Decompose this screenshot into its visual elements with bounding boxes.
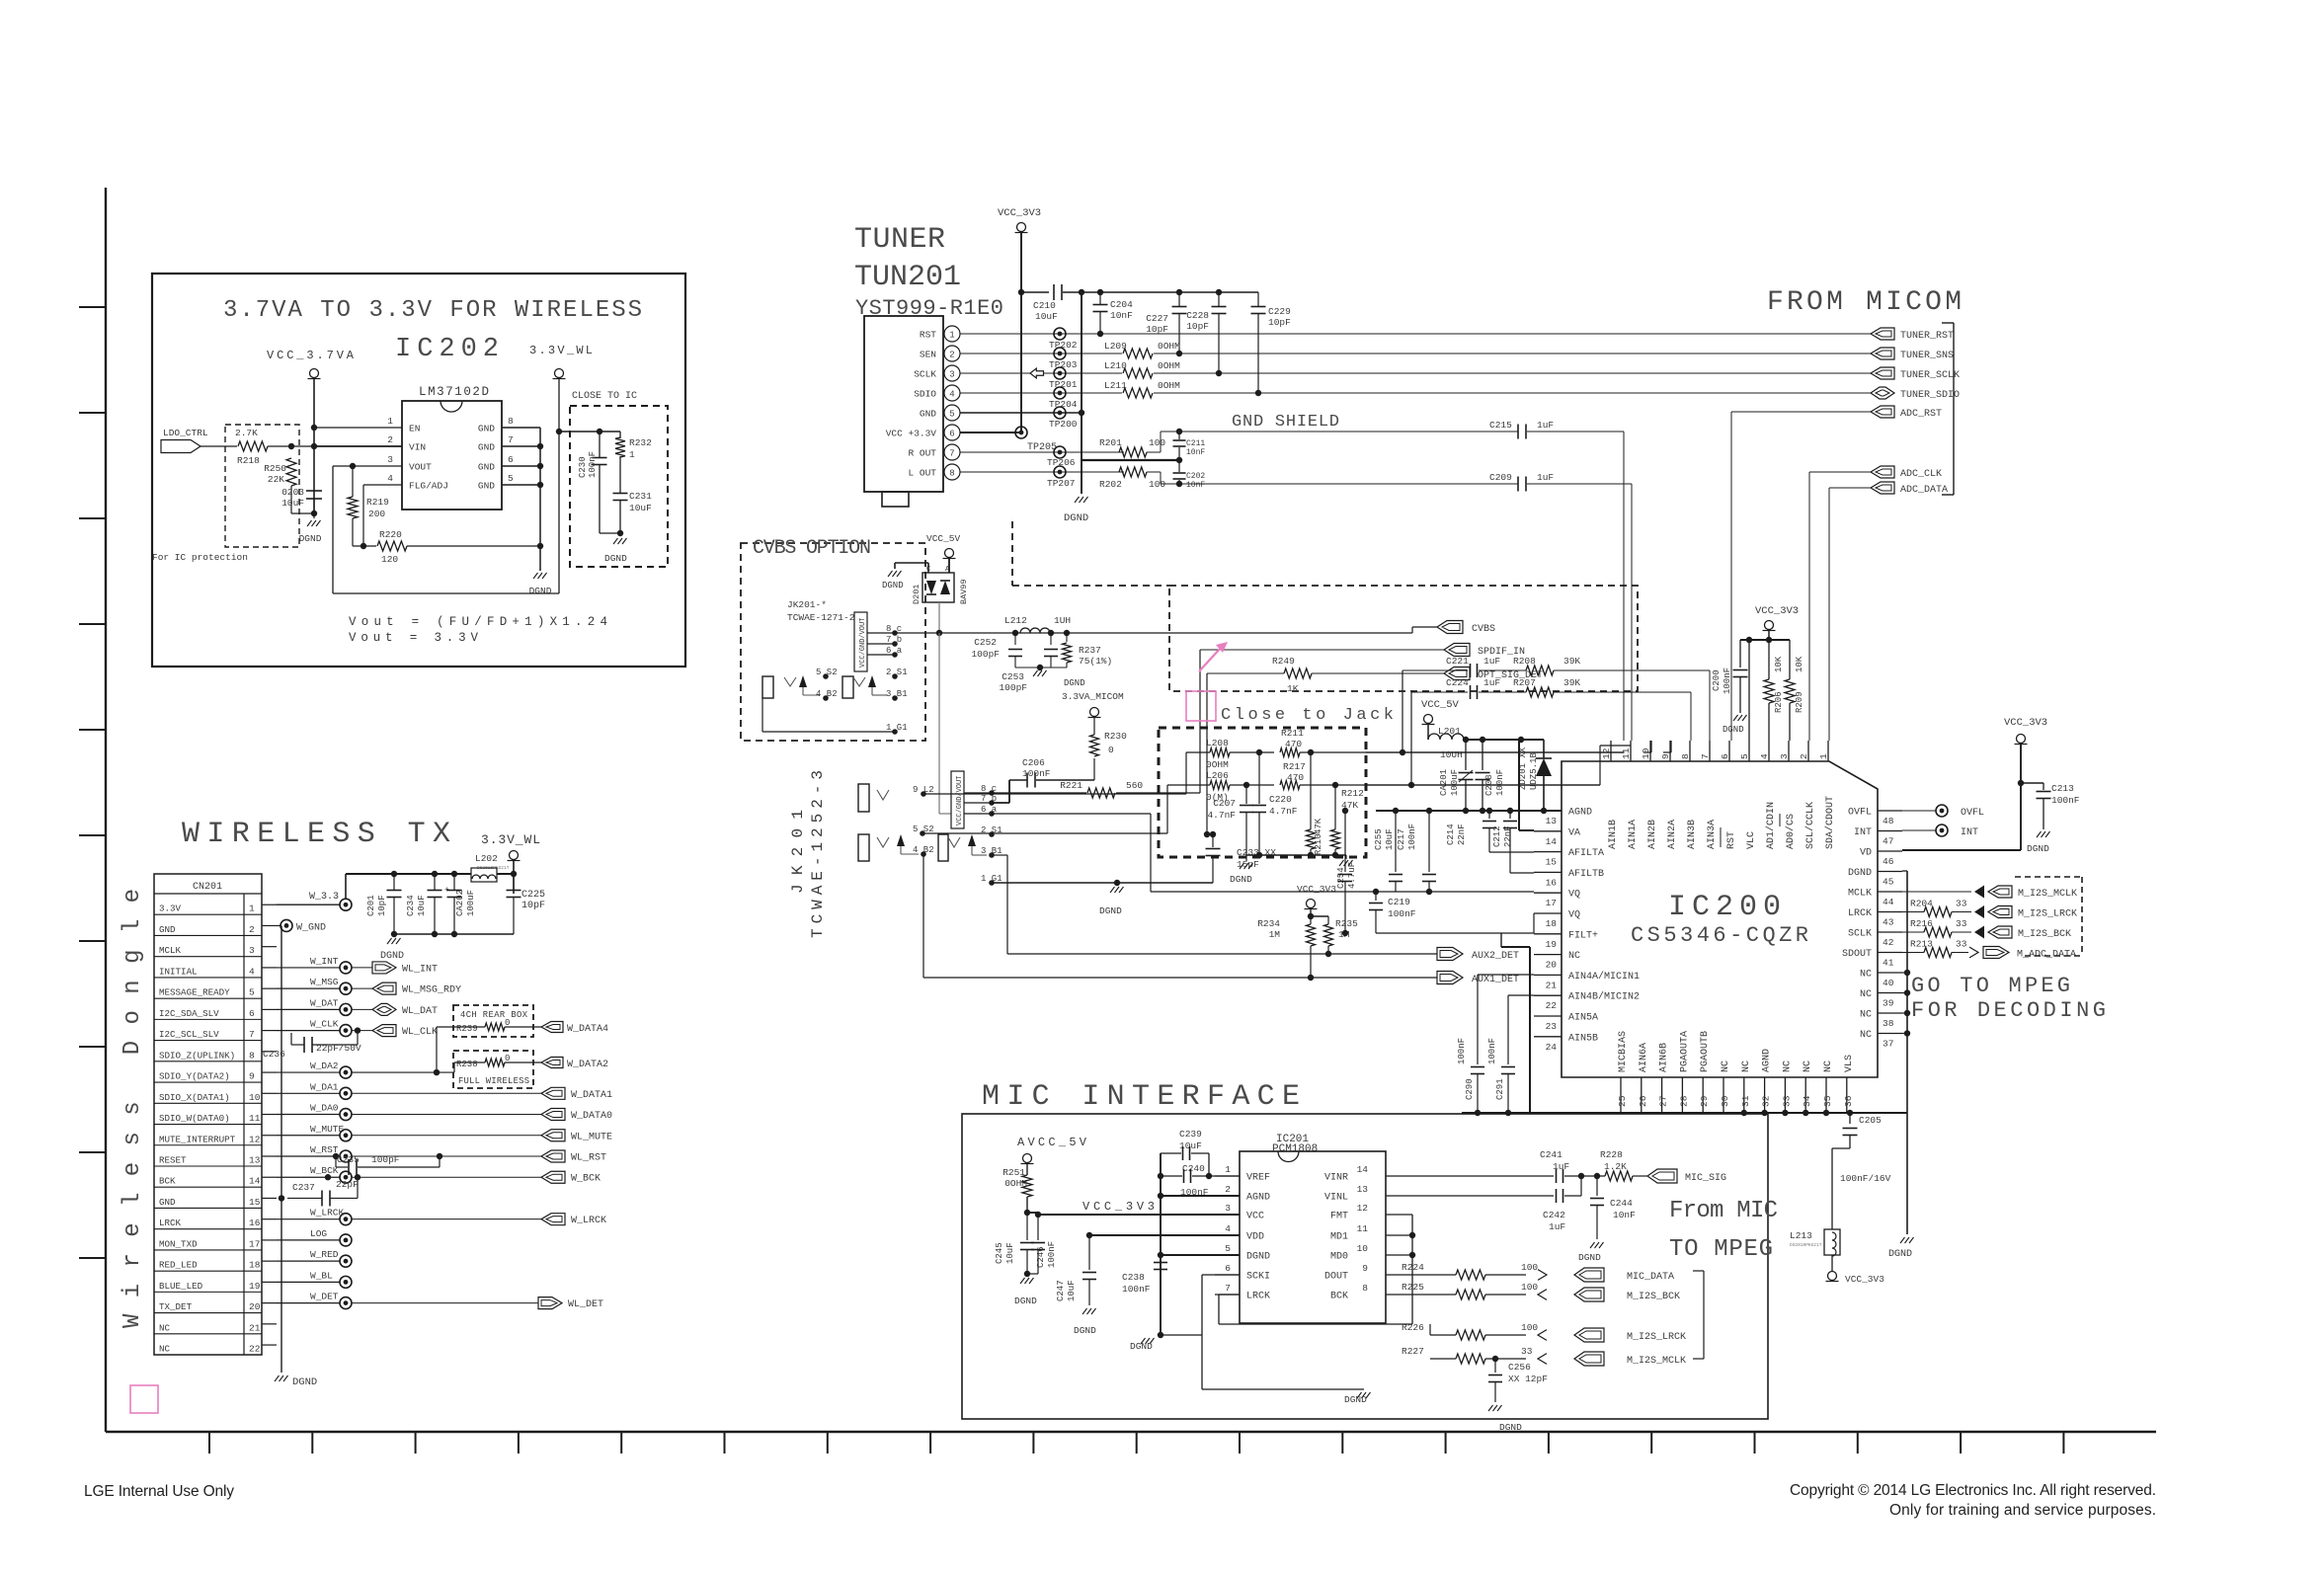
IC200 pin 1 SDA/CDOUT (1827, 741, 1829, 761)
svg-text:100nF: 100nF (2051, 795, 2080, 806)
frame left border line (105, 188, 107, 1432)
wire SEN + L209 (960, 353, 1122, 354)
wire VQ pin18 (1376, 932, 1534, 934)
svg-text:GND: GND (478, 462, 495, 473)
net tag W_DATA2 (541, 1058, 563, 1068)
svg-text:R216: R216 (1910, 918, 1933, 929)
net tag TUNER_SNS (1871, 348, 1894, 359)
svg-text:12: 12 (1601, 747, 1612, 759)
svg-text:MIC_DATA: MIC_DATA (1627, 1272, 1674, 1283)
svg-text:LRCK: LRCK (1246, 1292, 1270, 1302)
IC200 pin 33 NC (1784, 1077, 1786, 1113)
svg-text:100: 100 (1149, 437, 1165, 448)
svg-text:R218: R218 (237, 455, 260, 466)
svg-text:10uF: 10uF (1067, 1280, 1077, 1301)
svg-text:43: 43 (1883, 917, 1894, 928)
svg-text:33: 33 (1956, 918, 1967, 929)
svg-text:22pF: 22pF (336, 1179, 359, 1190)
svg-text:33: 33 (1956, 899, 1967, 909)
shield bottom line with C209 1uF (1161, 483, 1518, 485)
svg-text:1: 1 (629, 449, 635, 460)
svg-text:BLUE_LED: BLUE_LED (159, 1281, 203, 1292)
FILT+ thick drop (1529, 947, 1531, 1113)
svg-text:NC: NC (1860, 970, 1872, 981)
svg-text:C224: C224 (1446, 677, 1469, 688)
svg-text:NC: NC (159, 1322, 171, 1333)
dashed protection box (225, 425, 299, 547)
svg-text:C230: C230 (578, 456, 588, 478)
svg-text:VINL: VINL (1324, 1193, 1348, 1204)
svg-text:R221: R221 (1060, 780, 1082, 791)
svg-text:DGND: DGND (1723, 725, 1744, 735)
svg-text:39: 39 (1883, 998, 1894, 1009)
wire SDIO + L211 (960, 392, 1122, 394)
svg-text:MD0: MD0 (1330, 1252, 1348, 1263)
svg-text:C205: C205 (1859, 1115, 1882, 1126)
svg-text:0OHM: 0OHM (1158, 341, 1180, 352)
svg-text:5: 5 (949, 410, 954, 420)
IC200 pin 31 NC (1743, 1077, 1745, 1113)
svg-text:DGND: DGND (1848, 868, 1872, 879)
svg-text:10uF: 10uF (1035, 311, 1058, 322)
net tag WL_MSG_RDY (372, 982, 396, 994)
capacitor C228 10pF (1216, 289, 1222, 295)
svg-text:C231: C231 (629, 491, 652, 502)
IC200 pin 41 SDOUT (1878, 952, 1902, 954)
svg-text:100nF/16V: 100nF/16V (1840, 1173, 1891, 1184)
svg-text:14: 14 (1357, 1164, 1369, 1175)
svg-text:21: 21 (249, 1322, 261, 1333)
power VCC_3V3 under L213 (1828, 1272, 1837, 1281)
svg-text:10uF: 10uF (629, 503, 652, 513)
R208/R207 39K to AIN3 (1402, 670, 1403, 752)
svg-text:W_LRCK: W_LRCK (571, 1216, 606, 1226)
svg-text:L206: L206 (1206, 770, 1229, 781)
svg-text:SEN: SEN (920, 350, 936, 360)
svg-text:AIN2B: AIN2B (1647, 820, 1658, 849)
IC200 pin 29 PGAOUTB (1702, 1077, 1704, 1113)
svg-text:47: 47 (1883, 836, 1893, 847)
svg-text:Only for training and service: Only for training and service purposes. (1889, 1502, 2156, 1519)
capacitor C210 10uF (1021, 291, 1049, 293)
svg-text:PGAOUTA: PGAOUTA (1679, 1031, 1690, 1072)
svg-text:TUNER: TUNER (854, 223, 945, 257)
svg-text:AIN5B: AIN5B (1568, 1033, 1598, 1044)
svg-text:10: 10 (249, 1092, 261, 1103)
svg-text:3: 3 (949, 370, 954, 380)
svg-text:C245: C245 (995, 1242, 1004, 1264)
svg-text:XX 12pF: XX 12pF (1508, 1374, 1548, 1384)
IC200 pin 17 VQ (1534, 892, 1562, 894)
LRCK/FMT/MD loop (1219, 1294, 1240, 1296)
svg-text:100: 100 (1521, 1262, 1538, 1273)
wire VCC pin6 (960, 432, 1021, 433)
svg-text:AIN3B: AIN3B (1687, 820, 1698, 849)
svg-text:NC: NC (1568, 951, 1580, 962)
svg-text:100nF: 100nF (1723, 668, 1732, 694)
svg-text:W_DET: W_DET (310, 1292, 339, 1302)
svg-text:3.3VA_MICOM: 3.3VA_MICOM (1062, 691, 1124, 702)
svg-text:R238: R238 (456, 1060, 478, 1069)
svg-text:10K: 10K (1795, 656, 1804, 672)
capacitor C207 4.7nF (1245, 785, 1247, 804)
svg-text:C201: C201 (366, 895, 376, 916)
svg-text:CN201: CN201 (193, 882, 222, 893)
svg-text:DGND: DGND (1064, 512, 1088, 524)
svg-text:C240: C240 (1182, 1163, 1205, 1174)
svg-text:10K: 10K (1774, 656, 1784, 672)
svg-text:AD0/CS: AD0/CS (1785, 814, 1797, 849)
wire VD pin46 (1902, 849, 2021, 851)
svg-text:GND: GND (920, 409, 936, 420)
IC200 pin 5 VLC (1748, 741, 1750, 761)
svg-text:8: 8 (508, 416, 514, 427)
svg-text:10pF: 10pF (521, 901, 545, 911)
capacitor C211 10nF (1176, 429, 1182, 434)
capacitor C236 22pF/50V (355, 1027, 361, 1033)
right bracket (1703, 1271, 1705, 1359)
svg-text:TUNER_RST: TUNER_RST (1900, 331, 1954, 342)
svg-text:R213: R213 (1910, 939, 1933, 950)
svg-text:VA: VA (1568, 827, 1580, 838)
svg-text:C200: C200 (1712, 669, 1722, 691)
svg-text:C214: C214 (1446, 824, 1456, 845)
svg-text:100nF: 100nF (1388, 908, 1416, 919)
svg-text:30: 30 (1720, 1095, 1730, 1107)
svg-text:C219: C219 (1388, 897, 1410, 907)
svg-text:VCC_3V3: VCC_3V3 (998, 207, 1041, 219)
svg-text:22K: 22K (268, 474, 284, 485)
svg-text:C253: C253 (1002, 671, 1024, 682)
svg-text:AD1/CDIN: AD1/CDIN (1765, 802, 1777, 849)
svg-text:C209: C209 (1489, 472, 1512, 483)
IC200 pin 14 VA (1534, 830, 1562, 832)
svg-text:25: 25 (1617, 1095, 1628, 1107)
svg-text:LRCK: LRCK (1848, 908, 1872, 919)
svg-text:VCC_5V: VCC_5V (926, 533, 961, 544)
IC200 pin 23 AIN5A (1534, 1015, 1562, 1017)
wire S2/S1 to dashed box (922, 833, 992, 834)
net tag MIC_SIG (1647, 1169, 1677, 1183)
svg-text:100: 100 (1521, 1282, 1538, 1293)
svg-text:TUNER_SDIO: TUNER_SDIO (1900, 390, 1960, 401)
svg-text:C229: C229 (1268, 306, 1291, 317)
svg-text:C217: C217 (1397, 828, 1406, 850)
IC200 pin 25 MICBIAS (1620, 1077, 1622, 1113)
svg-text:4: 4 (387, 473, 393, 484)
svg-text:R220: R220 (379, 529, 402, 540)
svg-text:100pF: 100pF (971, 649, 1000, 660)
svg-text:C234: C234 (406, 895, 416, 916)
svg-text:R OUT: R OUT (908, 448, 936, 459)
capacitor C213 100nF (2021, 782, 2044, 784)
svg-text:For IC protection: For IC protection (152, 552, 248, 563)
svg-text:100nF: 100nF (1022, 768, 1051, 779)
svg-text:AIN6B: AIN6B (1659, 1043, 1670, 1072)
svg-text:SDIO_W(DATA0): SDIO_W(DATA0) (159, 1113, 230, 1124)
svg-text:R207: R207 (1513, 677, 1536, 688)
svg-text:Vout = (FU/FD+1)X1.24: Vout = (FU/FD+1)X1.24 (349, 615, 607, 629)
svg-text:AIN1B: AIN1B (1608, 820, 1619, 849)
svg-text:VCC: VCC (1246, 1212, 1264, 1222)
net tag W_DATA1 (541, 1087, 565, 1099)
svg-text:R234: R234 (1257, 918, 1280, 929)
svg-text:10pF: 10pF (1146, 324, 1168, 335)
wire GND pin5 (960, 412, 1082, 414)
pin9/10 stub hooks (1650, 741, 1652, 752)
svg-text:11: 11 (1357, 1223, 1369, 1234)
wire pin b C206 R230 (992, 802, 1009, 804)
svg-text:17: 17 (249, 1238, 260, 1249)
svg-text:INT: INT (1961, 827, 1978, 838)
svg-text:LGE Internal Use Only: LGE Internal Use Only (84, 1483, 234, 1500)
svg-text:C238: C238 (1122, 1272, 1145, 1283)
svg-text:C255: C255 (1374, 828, 1384, 850)
svg-text:4CH REAR BOX: 4CH REAR BOX (460, 1010, 528, 1020)
svg-text:Vout = 3.3V: Vout = 3.3V (349, 631, 478, 645)
svg-text:C242: C242 (1543, 1210, 1565, 1220)
IC200 pin 8 AIN3B (1689, 741, 1691, 761)
svg-text:W_DATA2: W_DATA2 (567, 1060, 608, 1070)
svg-text:RED_LED: RED_LED (159, 1260, 198, 1271)
svg-text:C236: C236 (263, 1049, 285, 1060)
svg-text:GND: GND (159, 1197, 176, 1208)
wire a-pin to VQ bus (1151, 891, 1376, 893)
svg-text:1uF: 1uF (1537, 472, 1554, 483)
svg-text:AIN4B/MICIN2: AIN4B/MICIN2 (1568, 991, 1640, 1003)
IC200 pin 18 VQ (1534, 912, 1562, 914)
IC202 pin 7 GND (502, 445, 540, 447)
svg-text:R210: R210 (1314, 833, 1323, 855)
svg-text:3: 3 (387, 454, 393, 465)
net tag TUNER_SDIO (1871, 387, 1894, 399)
svg-text:SDA/CDOUT: SDA/CDOUT (1824, 796, 1836, 849)
svg-text:C228: C228 (1186, 310, 1209, 321)
svg-text:DGND: DGND (2027, 843, 2049, 854)
svg-text:WL_DET: WL_DET (568, 1299, 603, 1310)
svg-text:C225: C225 (521, 890, 545, 901)
svg-text:LM37102D: LM37102D (419, 385, 489, 399)
bracket bus line (1953, 323, 1955, 495)
svg-text:Copyright © 2014 LG Electronic: Copyright © 2014 LG Electronics Inc. All… (1790, 1482, 2156, 1499)
svg-text:R208: R208 (1513, 656, 1536, 667)
svg-text:VDD: VDD (1246, 1232, 1264, 1243)
svg-text:NC: NC (1741, 1061, 1752, 1072)
svg-text:AGND: AGND (1568, 808, 1592, 819)
svg-text:PCM1808: PCM1808 (1272, 1143, 1318, 1155)
svg-text:200: 200 (368, 509, 385, 519)
net tag TUNER_SCLK (1871, 367, 1894, 379)
wire ADC_RST to IC200 RST pin (1731, 411, 1871, 413)
svg-text:R249: R249 (1272, 656, 1295, 667)
svg-text:R224: R224 (1402, 1262, 1424, 1273)
wires box to pins (964, 792, 992, 794)
svg-text:0OHM: 0OHM (1206, 759, 1229, 770)
svg-text:0OHM: 0OHM (1158, 380, 1180, 391)
svg-text:VCC_5V: VCC_5V (1421, 699, 1460, 711)
svg-text:8: 8 (249, 1050, 255, 1061)
svg-text:TUN201: TUN201 (854, 261, 961, 294)
IC201 pin 9 DOUT (1386, 1274, 1412, 1276)
svg-text:L OUT: L OUT (908, 468, 936, 479)
wire ADC_DATA to IC200 SDA (1829, 487, 1871, 489)
svg-text:W_CLK: W_CLK (310, 1019, 339, 1030)
IC201 pin 5 DGND (1215, 1254, 1240, 1256)
svg-text:CA201: CA201 (1439, 769, 1449, 796)
pink revision square (130, 1385, 158, 1413)
svg-text:NC: NC (1721, 1061, 1731, 1072)
svg-text:DS2010PKG21T: DS2010PKG21T (1790, 1242, 1822, 1248)
svg-text:VCC/GND/VOUT: VCC/GND/VOUT (956, 776, 964, 825)
svg-text:L210: L210 (1104, 360, 1127, 371)
svg-text:10nF: 10nF (1110, 310, 1133, 321)
svg-text:GND: GND (478, 442, 495, 453)
svg-text:8: 8 (949, 469, 954, 479)
wire R227 M_I2S_MCLK (1202, 1358, 1430, 1360)
svg-text:SCKI: SCKI (1246, 1272, 1270, 1283)
resistor R216 33 + tag M_I2S_BCK (1902, 931, 1924, 933)
svg-text:46: 46 (1883, 856, 1894, 867)
CVBS net line (938, 602, 940, 633)
svg-text:4: 4 (249, 966, 255, 977)
svg-text:FULL WIRELESS: FULL WIRELESS (458, 1076, 529, 1086)
svg-text:20: 20 (1546, 960, 1558, 971)
svg-text:PGAOUTB: PGAOUTB (1700, 1031, 1711, 1072)
svg-text:33: 33 (1521, 1346, 1533, 1357)
svg-text:NC: NC (1823, 1061, 1834, 1072)
svg-text:W_DATA4: W_DATA4 (567, 1024, 608, 1035)
svg-text:24: 24 (1546, 1042, 1558, 1053)
svg-text:R226: R226 (1402, 1322, 1424, 1333)
svg-text:5: 5 (508, 473, 514, 484)
wire G1 with DGND (992, 882, 1213, 884)
net tag W_LRCK (541, 1214, 565, 1225)
capacitor C205 100nF/16V (1847, 1110, 1853, 1116)
svg-text:ADC_CLK: ADC_CLK (1900, 469, 1942, 480)
svg-text:C211: C211 (1186, 439, 1205, 448)
svg-text:22nF: 22nF (1457, 824, 1467, 845)
IC200 pin 44 MCLK (1878, 891, 1902, 893)
svg-text:28: 28 (1678, 1095, 1689, 1107)
svg-text:MCLK: MCLK (159, 945, 182, 956)
svg-text:M_I2S_MCLK: M_I2S_MCLK (2018, 889, 2077, 900)
svg-text:W_BCK: W_BCK (310, 1165, 339, 1176)
svg-text:VLS: VLS (1844, 1055, 1855, 1072)
IC200 pin 19 FILT+ (1534, 933, 1562, 935)
IC200 pin 26 AIN6A (1641, 1077, 1643, 1113)
IC200 pin 46 VD (1878, 850, 1902, 852)
svg-text:R219: R219 (366, 497, 389, 508)
svg-text:7: 7 (1225, 1283, 1231, 1294)
capacitor C252 100pF (1012, 630, 1018, 636)
wire AGND pin2 (1161, 1195, 1240, 1197)
svg-text:W_BCK: W_BCK (571, 1174, 601, 1185)
IC201 pin 7 LRCK (1215, 1294, 1240, 1296)
svg-text:MESSAGE_READY: MESSAGE_READY (159, 987, 230, 998)
svg-text:31: 31 (1740, 1095, 1751, 1107)
GND bus vertical to DGND (539, 428, 541, 571)
net tag ADC_RST (1871, 406, 1894, 418)
IC201 pin 2 AGND (1215, 1195, 1240, 1197)
svg-text:39K: 39K (1563, 677, 1580, 688)
svg-text:11: 11 (1621, 747, 1632, 759)
svg-text:C244: C244 (1610, 1198, 1633, 1209)
svg-text:GND: GND (478, 481, 495, 492)
capacitor C220 4.7nF (1258, 752, 1260, 804)
svg-text:470: 470 (1285, 739, 1302, 749)
svg-text:13: 13 (1357, 1184, 1369, 1195)
IC201 pin 12 FMT (1386, 1214, 1412, 1216)
wire MCLK to M_I2S_MCLK (1902, 891, 1971, 893)
svg-text:C210: C210 (1033, 300, 1056, 311)
wire SCLK + L210 (960, 372, 1122, 374)
svg-text:120: 120 (381, 554, 398, 565)
IC201 pin 11 MD1 (1386, 1234, 1412, 1236)
svg-text:13: 13 (1546, 816, 1558, 826)
svg-text:9: 9 (249, 1071, 255, 1082)
svg-text:AIN5A: AIN5A (1568, 1013, 1598, 1024)
svg-text:1: 1 (249, 904, 255, 914)
svg-text:10pF: 10pF (1186, 321, 1209, 332)
resistor R206 10K (1768, 640, 1770, 679)
svg-text:3: 3 (1779, 753, 1790, 759)
feedback loop wire VOUT to 3.3V_WL (333, 465, 402, 467)
net tag WL_DET (538, 1297, 562, 1309)
svg-text:10: 10 (1641, 747, 1651, 759)
capacitor C202 10nF (1178, 460, 1180, 472)
svg-text:1: 1 (387, 416, 393, 427)
IC200 pin 43 LRCK (1878, 911, 1902, 913)
IC200 pin 35 NC (1825, 1077, 1827, 1113)
svg-text:33: 33 (1781, 1095, 1792, 1107)
net tag WL_MUTE (541, 1130, 565, 1141)
net tag OPT_SIG_DET (1444, 668, 1470, 680)
IC200 pin 24 AIN5B (1534, 1036, 1562, 1038)
svg-text:1K: 1K (1287, 683, 1299, 694)
svg-text:C256: C256 (1508, 1362, 1531, 1373)
svg-text:W_DA1: W_DA1 (310, 1081, 339, 1092)
svg-text:AFILTB: AFILTB (1568, 869, 1604, 880)
svg-text:1uF: 1uF (1553, 1161, 1569, 1172)
svg-text:TUNER_SNS: TUNER_SNS (1900, 351, 1954, 361)
svg-text:100pF: 100pF (371, 1154, 400, 1165)
wire R OUT + R201 100 (960, 451, 1124, 453)
svg-text:4.7uF: 4.7uF (1347, 862, 1357, 889)
svg-text:SDIO_Y(DATA2): SDIO_Y(DATA2) (159, 1071, 230, 1082)
svg-text:LRCK: LRCK (159, 1218, 182, 1228)
svg-text:CLOSE TO IC: CLOSE TO IC (572, 391, 637, 402)
svg-text:R232: R232 (629, 437, 652, 448)
svg-text:CS5346-CQZR: CS5346-CQZR (1631, 923, 1808, 948)
resistor R204 33 + tag M_I2S_LRCK (1902, 911, 1924, 913)
svg-text:29: 29 (1699, 1095, 1710, 1107)
svg-text:NC: NC (1860, 1010, 1872, 1021)
svg-text:W_INT: W_INT (310, 956, 339, 967)
wire to decoupling (559, 431, 620, 432)
svg-text:1: 1 (1225, 1164, 1231, 1175)
net tag WL_INT (372, 962, 396, 974)
svg-text:W_DAT: W_DAT (310, 997, 339, 1008)
svg-text:45: 45 (1883, 877, 1894, 888)
svg-text:DGND: DGND (1064, 678, 1085, 688)
svg-text:11: 11 (249, 1113, 261, 1124)
svg-text:OVFL: OVFL (1848, 808, 1872, 819)
svg-text:WL_RST: WL_RST (571, 1152, 606, 1163)
svg-text:100pF: 100pF (999, 682, 1027, 693)
IC201 pin 3 VCC (1215, 1214, 1240, 1216)
svg-text:ADC_DATA: ADC_DATA (1900, 485, 1948, 496)
svg-text:10uF: 10uF (1385, 828, 1395, 850)
